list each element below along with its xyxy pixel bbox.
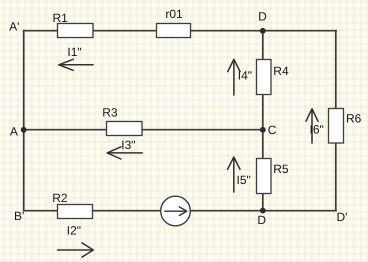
svg-text:R3: R3 xyxy=(102,105,118,119)
svg-text:D': D' xyxy=(337,210,348,224)
svg-text:I4": I4" xyxy=(238,68,252,82)
svg-text:A': A' xyxy=(9,19,19,33)
svg-text:I5": I5" xyxy=(237,173,251,187)
svg-text:R2: R2 xyxy=(52,191,68,205)
svg-text:I3": I3" xyxy=(121,138,135,152)
svg-text:D: D xyxy=(258,10,267,24)
svg-text:C: C xyxy=(268,123,277,137)
svg-text:I1": I1" xyxy=(67,45,81,59)
svg-text:R5: R5 xyxy=(273,162,289,176)
svg-text:I6": I6" xyxy=(310,122,324,136)
svg-text:R6: R6 xyxy=(346,112,362,126)
svg-text:R1: R1 xyxy=(53,11,69,25)
svg-text:B': B' xyxy=(14,209,24,223)
svg-text:D: D xyxy=(257,213,266,227)
svg-text:I2": I2" xyxy=(67,224,81,238)
svg-text:R4: R4 xyxy=(273,64,289,78)
svg-text:A: A xyxy=(10,125,18,139)
svg-text:r01: r01 xyxy=(165,7,183,21)
